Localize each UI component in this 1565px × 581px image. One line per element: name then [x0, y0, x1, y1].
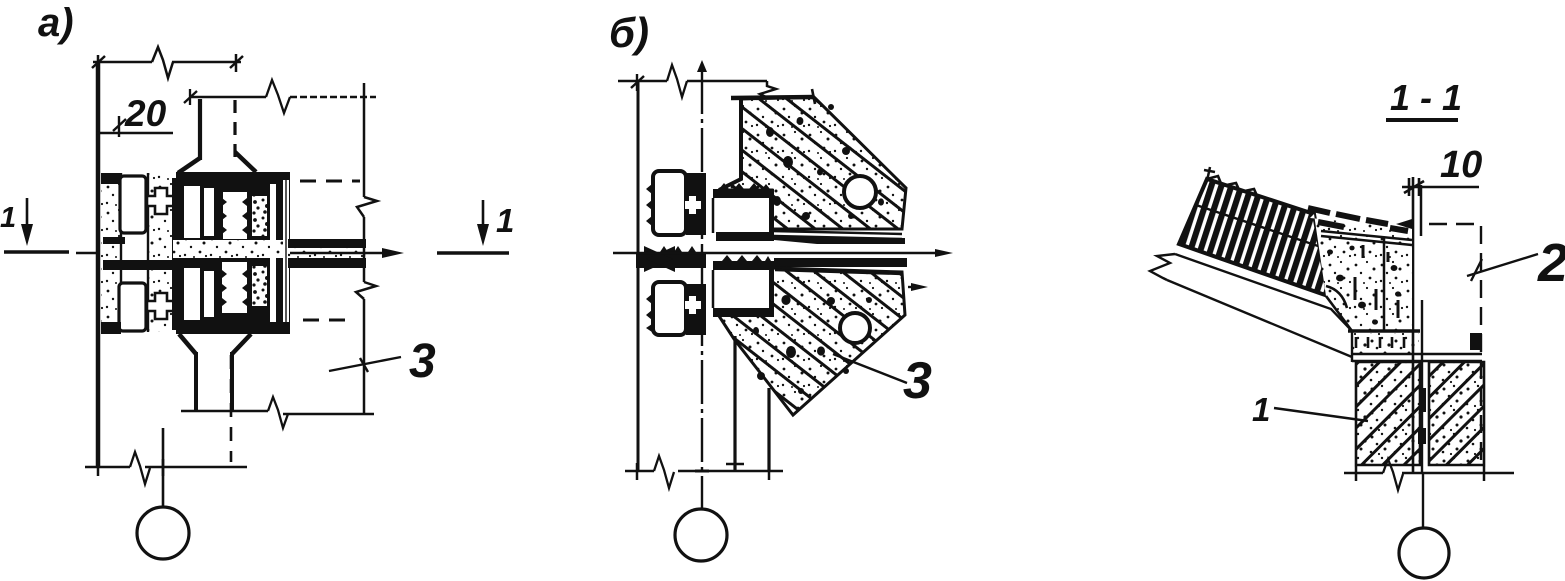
bottom break line b [625, 470, 783, 473]
axis circle [137, 507, 189, 559]
axis circle b [675, 509, 727, 561]
lower band right portion [774, 258, 907, 267]
block central bar upper [223, 192, 247, 239]
svg-text:1: 1 [0, 202, 16, 234]
leader line for label 3 [329, 357, 401, 371]
stair flight band [1179, 179, 1328, 296]
extension line right [363, 83, 366, 414]
column cut line [181, 410, 268, 413]
column head left flange [198, 99, 202, 160]
top break line [618, 80, 767, 82]
lower slab line L3 [1167, 280, 1352, 357]
speckle blobs lower block [742, 288, 872, 395]
joint block body [172, 178, 290, 330]
support pad marks [1356, 337, 1404, 348]
dimension line 20 [96, 132, 173, 135]
column bottom flare right [232, 334, 251, 354]
plus cutout upper [685, 196, 701, 214]
block top edge thick [731, 97, 814, 98]
upper block left edge thick [719, 99, 741, 190]
serif at bottom line left [97, 459, 100, 476]
serif axis crossing [162, 459, 165, 476]
embed plate lower b [653, 282, 686, 335]
weld teeth left of upper plate [646, 184, 652, 226]
landing inner vertical [1383, 238, 1386, 331]
tick left end of top dim [92, 55, 105, 72]
dimension line second [190, 96, 266, 99]
wall stipple overlay left [1357, 363, 1419, 464]
bar under notch [716, 232, 774, 241]
upper block bottom double edge [772, 231, 902, 234]
svg-text:3: 3 [409, 335, 436, 388]
weld teeth on notch top border [719, 183, 770, 189]
hatch overlay lower block [719, 268, 905, 415]
tick right end of top dim [230, 54, 243, 72]
column head flare right [235, 152, 256, 172]
thin line in slit 2 [285, 180, 287, 328]
zigzag bottom line b [654, 456, 674, 488]
weld teeth left of lower plate [646, 294, 652, 332]
svg-text:a): a) [38, 1, 74, 45]
dimension line top [93, 61, 241, 64]
plus cutout lower [685, 296, 701, 314]
bottom break line [85, 466, 247, 469]
flight step notches top edge [1207, 176, 1258, 198]
left break zigzag flight [1150, 254, 1175, 280]
svg-text:2: 2 [1537, 233, 1565, 293]
flight top spur [1204, 167, 1215, 181]
column bottom right flange [230, 352, 234, 411]
leader line label 3 b [833, 354, 907, 383]
support pad stipple [1353, 333, 1419, 353]
column bottom left flange [194, 352, 198, 411]
section mark left: line [4, 250, 69, 253]
zigzag break upper on right line [357, 197, 377, 217]
hatch overlay upper block [719, 97, 906, 229]
heading underline [1386, 118, 1458, 122]
svg-text:1 - 1: 1 - 1 [1390, 77, 1462, 118]
anchor channel line [1421, 300, 1423, 473]
section mark left: stem [26, 198, 29, 226]
serif bottom right b [768, 463, 771, 480]
axis circle c [1399, 528, 1449, 578]
pad right dark blob [1470, 333, 1482, 350]
serif axis crossing bottom b [695, 470, 709, 473]
centerline horizontal with arrow [613, 252, 940, 254]
serif at block top-right corner [812, 89, 815, 104]
flight soffit line L2 [1175, 254, 1352, 331]
upper haunch block [719, 97, 906, 229]
wall right part hatched [1429, 362, 1484, 465]
ticks of 10 dim [1404, 178, 1424, 196]
column flange left below [733, 336, 736, 471]
teeth on central bar upper [222, 198, 247, 234]
wall2 dashed top edge [1429, 223, 1481, 225]
serif wall bottom [1356, 466, 1484, 481]
beam arm lower chord [288, 258, 366, 268]
column bottom flare left [179, 334, 196, 354]
break zigzag on second dim line [266, 80, 290, 113]
svg-text:3: 3 [903, 352, 932, 410]
corner down from top line with zigzag [760, 81, 776, 98]
notch top border thick [713, 189, 774, 198]
weld strip between plates [148, 173, 172, 332]
section mark right: arrowhead [477, 224, 489, 246]
column head flare left [178, 158, 200, 173]
svg-text:б): б) [609, 9, 649, 56]
black band left below centerline [103, 260, 178, 270]
svg-text:10: 10 [1440, 144, 1482, 186]
section mark right: stem [482, 200, 485, 226]
block right pocket lower [252, 266, 267, 306]
wall stipple overlay right [1430, 363, 1483, 464]
embed plate upper [120, 176, 146, 233]
landing edge vertical [1412, 177, 1415, 473]
support pad top line [1348, 329, 1420, 332]
block white slot lower-left [184, 268, 200, 320]
notch white box lower [713, 268, 774, 316]
beam arm stipple core [288, 248, 366, 258]
dashed hidden line upper right [300, 180, 360, 183]
weld cross upper [147, 188, 175, 214]
dark zone right of upper plate [686, 173, 706, 235]
bowtie weld mark at centerline [644, 246, 675, 272]
block white slot2 lower [204, 271, 214, 317]
svg-text:1: 1 [496, 202, 514, 239]
notch white box upper [713, 189, 774, 235]
block right border white slit 2 [283, 180, 289, 328]
axis stem to circle c [1422, 473, 1424, 529]
block right pocket upper [252, 196, 267, 236]
extension line left wall [96, 62, 101, 467]
serif left end top line [631, 74, 644, 91]
embed plate upper b [653, 171, 686, 235]
support pad left edge [1351, 331, 1353, 362]
notch thin outline [712, 198, 715, 233]
wall black chunk top [101, 173, 121, 184]
column axis dashed below [230, 355, 233, 462]
landing top edge double line [1321, 231, 1412, 245]
rebar circle upper block [844, 176, 876, 208]
notch bottom border thick lower [713, 308, 774, 317]
bar marks in landing [1355, 245, 1398, 318]
extension line left [637, 81, 640, 471]
zigzag on top line [667, 65, 687, 97]
support pad bottom double lines [1352, 354, 1482, 361]
notch thin outline lower [712, 270, 715, 308]
bottom bearing plate [176, 322, 290, 334]
teeth above centerline band [660, 246, 696, 252]
notch right border lower [769, 270, 774, 310]
centerline heavy band left [636, 252, 706, 268]
zigzag on wall bottom [1383, 459, 1403, 490]
arrow pointing left at wall top [1396, 219, 1412, 229]
axis stem to circle [162, 428, 165, 507]
zigzag on column cut line [268, 397, 288, 428]
serif at start of second dim line [184, 89, 197, 105]
tick on extension crossing [360, 358, 368, 372]
wall panel stipple strip [101, 173, 122, 332]
zigzag on bottom line [130, 452, 150, 484]
break zigzag on top dimension line [152, 47, 173, 78]
notch right border [769, 193, 774, 235]
zigzag break lower on right line [356, 282, 376, 299]
wall black chunk bottom [101, 322, 121, 334]
embed plate lower [119, 283, 146, 331]
label 2 leader [1467, 254, 1538, 276]
centerline with right arrow [76, 252, 395, 254]
serif bottom left b [636, 463, 639, 480]
wall face vertical thin [1420, 185, 1423, 236]
tick on leader 2 [1471, 259, 1482, 281]
column head dashed right flange [233, 100, 236, 160]
svg-text:20: 20 [124, 93, 167, 134]
upper beam strip tapering [774, 235, 905, 244]
block centerline mortar row [173, 240, 290, 258]
serif flange bottoms [726, 463, 744, 465]
wall bottom line [1344, 472, 1514, 475]
block central bar lower [222, 262, 247, 313]
wall left part hatched [1356, 362, 1420, 465]
flight mid nosing line [1196, 205, 1321, 247]
anchor blobs [1418, 388, 1426, 444]
notch top border lower with teeth [713, 255, 774, 270]
dashed hidden line lower right [303, 319, 352, 322]
arrow tick on 20 line [113, 116, 126, 137]
weld cross lower [147, 293, 175, 319]
beam arm upper chord [288, 239, 366, 248]
landing blobs [1327, 246, 1401, 325]
column flange right below [767, 388, 770, 471]
grid axis vertical [701, 70, 703, 509]
heavy dashes top of landing [1308, 208, 1408, 231]
dimension line 10 [1402, 186, 1479, 189]
speckle blobs upper block [766, 104, 884, 220]
svg-text:1: 1 [1252, 391, 1270, 428]
section mark left: arrowhead [21, 224, 33, 246]
block white slot2 upper [204, 188, 214, 236]
block white slot upper-left [184, 186, 200, 238]
wall2 dashed right edge [1480, 226, 1482, 460]
block right border white slit 1 [270, 184, 276, 327]
section mark right: line [437, 251, 509, 254]
dark zone right of lower plate [686, 284, 706, 335]
lower haunch block [719, 268, 905, 415]
label 1 leader [1274, 408, 1368, 421]
short arrow right lower [908, 286, 915, 288]
teeth on central bar lower [222, 270, 247, 306]
top bearing plate [176, 172, 290, 184]
rebar circle lower block [840, 313, 870, 343]
landing slab concrete [1310, 214, 1412, 331]
black chunk left above centerline [103, 237, 125, 244]
lower block top double edge [775, 270, 902, 274]
arc mark in landing [1326, 286, 1347, 308]
axis top arrow [697, 60, 707, 72]
landing lower-left edge [1326, 296, 1352, 331]
